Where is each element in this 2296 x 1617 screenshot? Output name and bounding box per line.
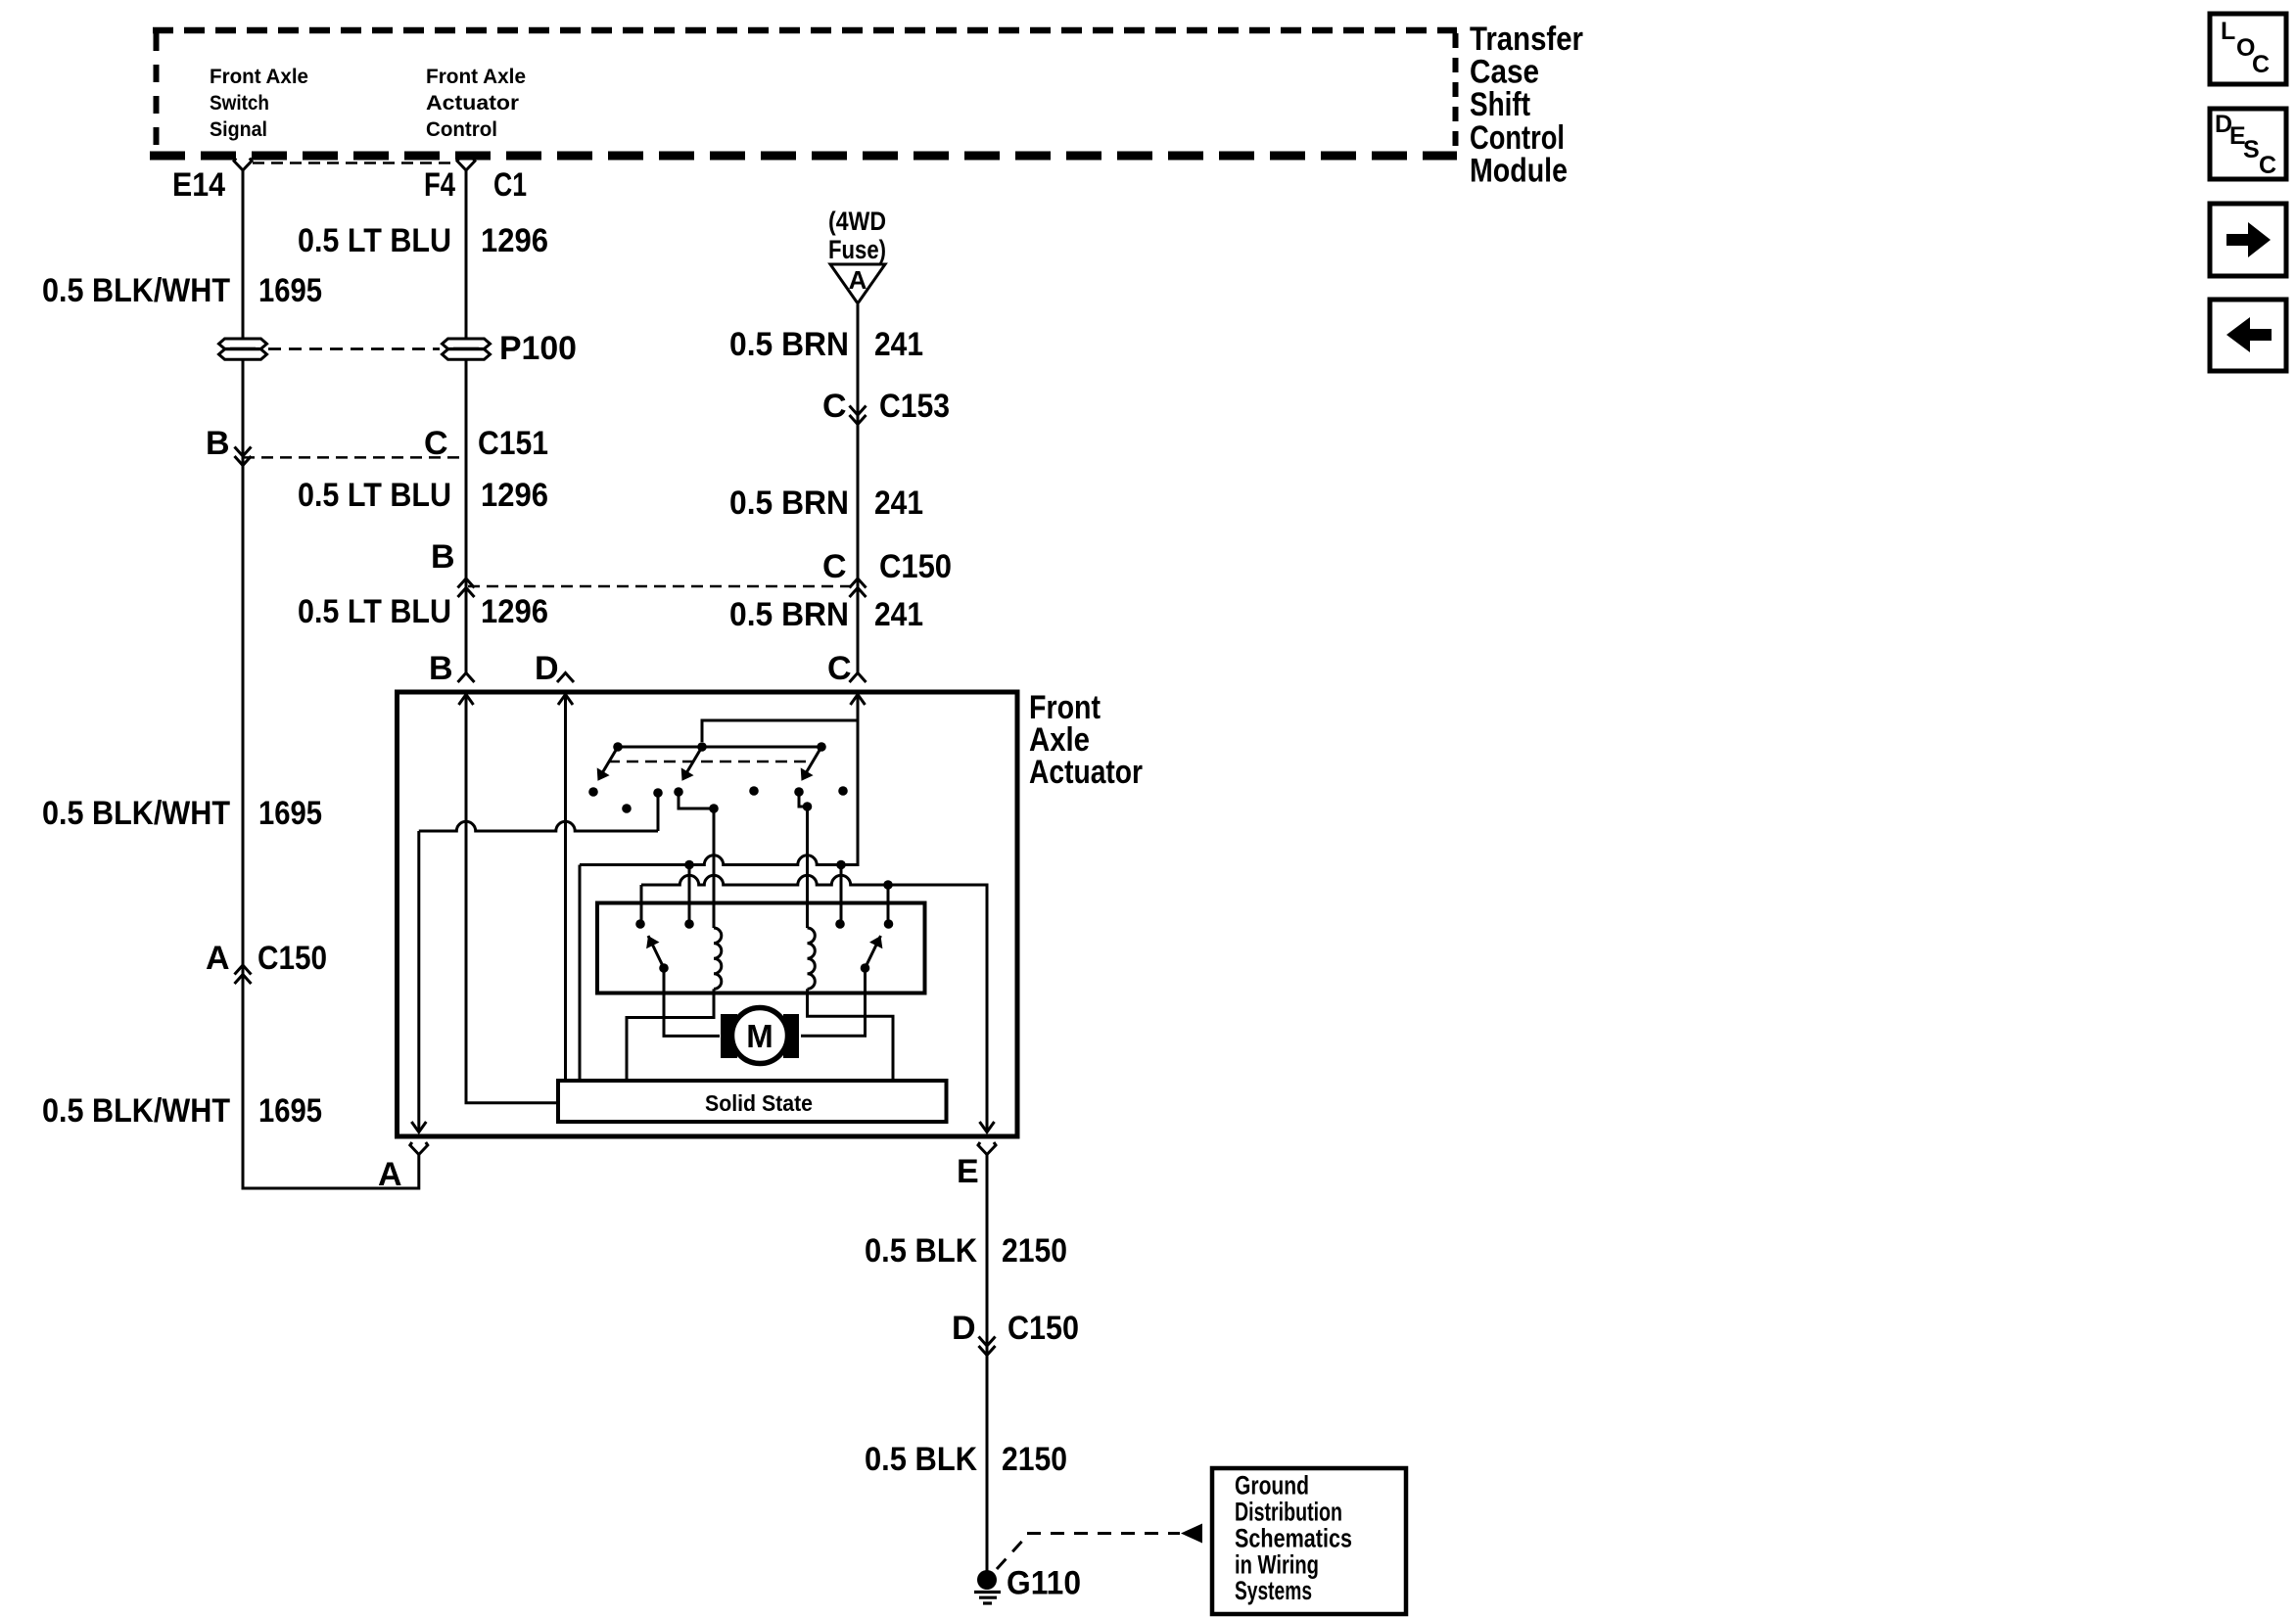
svg-text:Distribution: Distribution [1235, 1498, 1342, 1527]
svg-text:C: C [822, 548, 847, 585]
svg-text:A: A [378, 1156, 402, 1193]
svg-text:Shift: Shift [1470, 86, 1530, 123]
svg-text:241: 241 [874, 485, 923, 522]
svg-text:B: B [429, 650, 453, 687]
svg-text:Transfer: Transfer [1470, 21, 1583, 58]
svg-text:1695: 1695 [258, 1092, 322, 1130]
svg-text:1296: 1296 [481, 593, 548, 630]
svg-text:0.5 BLK: 0.5 BLK [865, 1441, 977, 1478]
svg-text:Control: Control [1470, 119, 1565, 157]
svg-text:P100: P100 [499, 330, 577, 367]
svg-text:L: L [2221, 18, 2235, 45]
svg-text:E: E [957, 1153, 979, 1190]
svg-text:0.5 BRN: 0.5 BRN [729, 596, 849, 633]
svg-text:241: 241 [874, 596, 923, 633]
svg-text:Actuator: Actuator [426, 92, 519, 115]
svg-text:Case: Case [1470, 54, 1539, 91]
svg-text:2150: 2150 [1002, 1232, 1067, 1270]
svg-text:1695: 1695 [258, 795, 322, 832]
svg-text:C150: C150 [1007, 1310, 1079, 1347]
svg-text:C150: C150 [258, 940, 327, 977]
svg-text:0.5 LT BLU: 0.5 LT BLU [298, 593, 451, 630]
svg-text:0.5 BLK: 0.5 BLK [865, 1232, 977, 1270]
svg-text:C: C [424, 425, 448, 462]
svg-text:Front Axle: Front Axle [210, 66, 308, 88]
svg-text:0.5 BRN: 0.5 BRN [729, 326, 849, 363]
svg-text:(4WD: (4WD [828, 207, 886, 236]
svg-text:D: D [952, 1310, 976, 1347]
svg-text:C: C [2252, 51, 2270, 78]
svg-text:E14: E14 [172, 166, 225, 204]
svg-text:0.5 LT BLU: 0.5 LT BLU [298, 222, 451, 259]
svg-text:C150: C150 [879, 548, 952, 585]
svg-text:C1: C1 [493, 166, 527, 204]
svg-text:0.5 BLK/WHT: 0.5 BLK/WHT [42, 1092, 230, 1130]
svg-text:0.5 BLK/WHT: 0.5 BLK/WHT [42, 272, 230, 309]
svg-text:2150: 2150 [1002, 1441, 1067, 1478]
svg-text:F4: F4 [424, 166, 455, 204]
svg-text:C: C [2259, 152, 2276, 179]
svg-text:C: C [822, 388, 847, 425]
svg-text:0.5 BRN: 0.5 BRN [729, 485, 849, 522]
svg-text:1296: 1296 [481, 222, 548, 259]
svg-text:M: M [746, 1018, 773, 1054]
svg-text:C: C [827, 650, 852, 687]
svg-text:D: D [535, 650, 559, 687]
svg-text:0.5 BLK/WHT: 0.5 BLK/WHT [42, 795, 230, 832]
svg-text:Ground: Ground [1235, 1471, 1309, 1501]
svg-text:Front Axle: Front Axle [426, 66, 526, 88]
svg-text:1296: 1296 [481, 477, 548, 514]
svg-text:1695: 1695 [258, 272, 322, 309]
svg-text:C151: C151 [478, 425, 548, 462]
svg-text:G110: G110 [1007, 1565, 1081, 1602]
svg-text:Module: Module [1470, 152, 1568, 189]
svg-text:Signal: Signal [210, 118, 267, 141]
svg-text:Actuator: Actuator [1029, 754, 1143, 791]
svg-text:Solid State: Solid State [705, 1090, 813, 1116]
svg-text:C153: C153 [879, 388, 950, 425]
svg-text:B: B [206, 425, 230, 462]
svg-text:Control: Control [426, 118, 497, 141]
svg-text:0.5 LT BLU: 0.5 LT BLU [298, 477, 451, 514]
svg-text:Systems: Systems [1235, 1576, 1312, 1605]
svg-text:A: A [849, 265, 867, 295]
svg-text:in Wiring: in Wiring [1235, 1549, 1319, 1579]
svg-text:S: S [2243, 136, 2260, 163]
svg-text:Switch: Switch [210, 92, 269, 115]
svg-text:B: B [431, 538, 455, 576]
svg-text:241: 241 [874, 326, 923, 363]
svg-text:Fuse): Fuse) [828, 235, 886, 264]
svg-text:A: A [206, 940, 230, 977]
svg-text:Schematics: Schematics [1235, 1523, 1352, 1552]
